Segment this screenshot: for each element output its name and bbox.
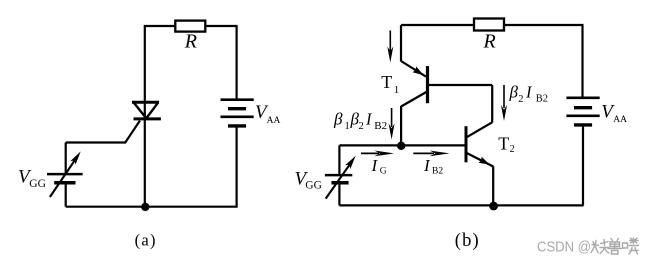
svg-text:β: β bbox=[509, 82, 519, 101]
svg-text:β: β bbox=[333, 109, 343, 128]
svg-text:GG: GG bbox=[29, 178, 46, 190]
svg-text:R: R bbox=[482, 31, 495, 53]
svg-text:2: 2 bbox=[518, 94, 523, 105]
svg-text:1: 1 bbox=[394, 84, 400, 96]
svg-text:AA: AA bbox=[613, 115, 627, 125]
svg-text:AA: AA bbox=[267, 116, 281, 126]
svg-text:R: R bbox=[184, 31, 197, 53]
svg-text:(b): (b) bbox=[455, 231, 480, 251]
svg-text:T: T bbox=[381, 72, 392, 92]
svg-text:GG: GG bbox=[305, 180, 322, 192]
svg-text:1: 1 bbox=[345, 121, 350, 132]
svg-text:(a): (a) bbox=[135, 231, 157, 250]
svg-text:B2: B2 bbox=[374, 120, 387, 132]
svg-text:G: G bbox=[380, 167, 387, 177]
svg-text:B2: B2 bbox=[432, 167, 443, 177]
svg-text:2: 2 bbox=[359, 121, 364, 132]
svg-text:CSDN @: CSDN @ bbox=[537, 239, 591, 256]
svg-text:T: T bbox=[498, 134, 509, 154]
svg-text:2: 2 bbox=[510, 144, 515, 155]
svg-text:B2: B2 bbox=[536, 94, 548, 105]
